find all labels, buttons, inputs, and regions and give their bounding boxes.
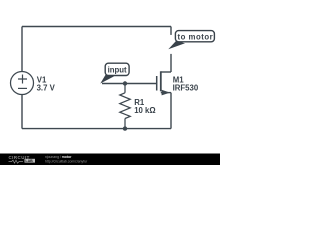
svg-text:IRF530: IRF530 xyxy=(173,83,199,92)
node: junction gate/R1 xyxy=(123,81,127,85)
voltage source V1 xyxy=(11,72,34,95)
source arrow of M1 xyxy=(162,90,170,96)
svg-text:input: input xyxy=(108,65,127,74)
gate bar xyxy=(156,76,158,91)
drain lead xyxy=(161,71,171,73)
wire: left vertical upper (top corner to V1 top) xyxy=(21,27,23,72)
node: junction R1/bottom wire xyxy=(123,126,127,130)
wire: top horizontal xyxy=(22,26,171,28)
svg-text:to motor: to motor xyxy=(178,33,214,42)
flag "to motor" callout tail xyxy=(168,41,185,49)
flag "input" bubble xyxy=(105,63,129,75)
wire: left vertical lower (V1 bottom to bottom corner) xyxy=(21,95,23,129)
flag "to motor" bubble xyxy=(175,31,214,42)
footer bar xyxy=(0,154,220,166)
wire: right vertical lower (flag anchor down to M1 drain) xyxy=(170,54,172,72)
resistor R1 xyxy=(120,84,130,129)
flag "input" callout tail xyxy=(100,74,114,83)
footer logo LAB xyxy=(25,159,36,163)
wire: right vertical upper (top corner to "to motor" flag anchor) xyxy=(170,27,172,35)
wire: gate wire from input flag to M1 gate xyxy=(102,83,157,85)
wire: bottom horizontal xyxy=(22,128,171,130)
svg-text:LAB: LAB xyxy=(25,159,33,163)
svg-text:10 kΩ: 10 kΩ xyxy=(134,106,155,115)
transistor M1 (NMOS) xyxy=(157,71,171,92)
channel bar xyxy=(160,71,162,91)
source lead xyxy=(161,92,171,94)
wire: M1 source down to bottom wire xyxy=(170,93,172,129)
footer logo wave xyxy=(9,160,24,163)
svg-text:3.7 V: 3.7 V xyxy=(37,84,56,93)
svg-text:http://circuitlab.com/c/anyfur: http://circuitlab.com/c/anyfur xyxy=(45,159,88,163)
